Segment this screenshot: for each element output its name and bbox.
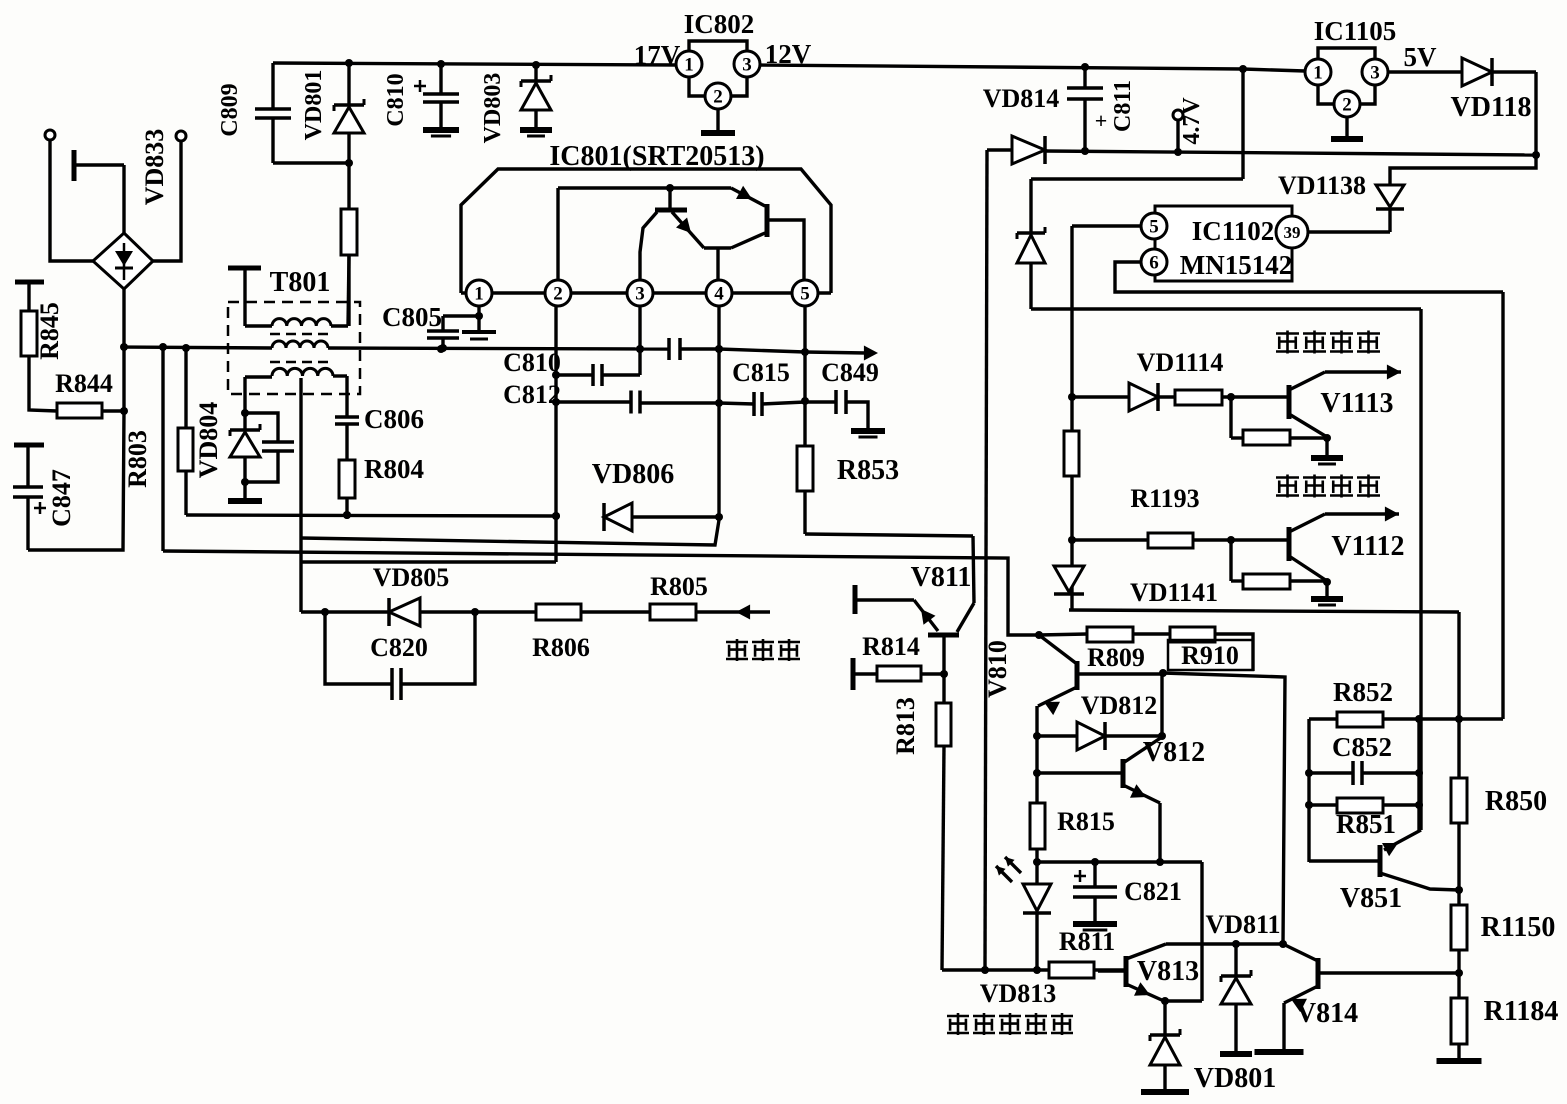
svg-text:IC1102: IC1102 xyxy=(1192,216,1275,246)
svg-text:VD805: VD805 xyxy=(373,563,450,592)
svg-text:VD812: VD812 xyxy=(1081,691,1158,720)
svg-text:V810: V810 xyxy=(983,640,1012,698)
svg-text:R811: R811 xyxy=(1059,927,1115,956)
svg-text:4.7V: 4.7V xyxy=(1179,97,1205,145)
svg-text:2: 2 xyxy=(713,86,723,107)
svg-text:C821: C821 xyxy=(1124,877,1182,906)
svg-text:C810: C810 xyxy=(383,73,409,126)
svg-text:R1184: R1184 xyxy=(1484,996,1559,1027)
svg-text:R853: R853 xyxy=(837,455,899,486)
svg-text:6: 6 xyxy=(1149,252,1159,273)
svg-text:V1112: V1112 xyxy=(1331,531,1404,562)
svg-text:C809: C809 xyxy=(217,83,243,136)
svg-text:C806: C806 xyxy=(364,404,424,434)
svg-text:VD814: VD814 xyxy=(983,84,1060,113)
svg-text:R815: R815 xyxy=(1057,807,1115,836)
svg-text:R852: R852 xyxy=(1333,677,1393,707)
svg-text:3: 3 xyxy=(742,54,752,75)
svg-text:C811: C811 xyxy=(1110,80,1136,132)
svg-text:R844: R844 xyxy=(55,369,113,398)
svg-text:IC802: IC802 xyxy=(684,9,755,39)
svg-text:17V: 17V xyxy=(634,40,681,70)
svg-text:V1113: V1113 xyxy=(1320,388,1393,419)
svg-text:2: 2 xyxy=(1342,94,1352,115)
svg-text:5: 5 xyxy=(800,283,810,304)
svg-text:2: 2 xyxy=(553,283,563,304)
svg-text:VD803: VD803 xyxy=(480,73,506,144)
svg-text:C812: C812 xyxy=(503,380,561,409)
svg-text:R850: R850 xyxy=(1485,786,1547,817)
svg-text:V851: V851 xyxy=(1340,883,1402,914)
svg-text:C849: C849 xyxy=(821,358,879,387)
svg-text:1: 1 xyxy=(684,54,694,75)
svg-text:VD1114: VD1114 xyxy=(1137,348,1224,377)
svg-text:C852: C852 xyxy=(1332,732,1392,762)
svg-text:VD811: VD811 xyxy=(1205,910,1280,939)
svg-text:C815: C815 xyxy=(732,358,790,387)
svg-text:R1193: R1193 xyxy=(1130,484,1199,513)
svg-text:R851: R851 xyxy=(1336,809,1396,839)
svg-text:VD1141: VD1141 xyxy=(1130,578,1218,607)
svg-text:R806: R806 xyxy=(532,633,590,662)
svg-text:V813: V813 xyxy=(1137,956,1199,987)
svg-text:5: 5 xyxy=(1149,216,1159,237)
svg-text:VD806: VD806 xyxy=(592,459,674,490)
svg-text:R805: R805 xyxy=(650,572,708,601)
svg-text:IC801(SRT20513): IC801(SRT20513) xyxy=(549,141,764,172)
svg-text:R804: R804 xyxy=(364,454,424,484)
svg-text:VD801: VD801 xyxy=(301,70,327,141)
svg-text:T801: T801 xyxy=(270,267,331,298)
svg-text:V812: V812 xyxy=(1143,737,1205,768)
svg-text:5V: 5V xyxy=(1404,42,1438,72)
svg-text:VD1138: VD1138 xyxy=(1278,171,1366,200)
svg-text:C810: C810 xyxy=(503,348,561,377)
svg-text:R845: R845 xyxy=(35,302,64,360)
svg-text:1: 1 xyxy=(474,283,484,304)
svg-text:R809: R809 xyxy=(1087,643,1145,672)
svg-text:VD833: VD833 xyxy=(140,129,169,206)
svg-text:R1150: R1150 xyxy=(1481,912,1556,943)
svg-text:+: + xyxy=(1095,108,1108,133)
svg-text:4: 4 xyxy=(714,283,724,304)
svg-text:C820: C820 xyxy=(370,633,428,662)
svg-text:MN15142: MN15142 xyxy=(1180,250,1292,280)
svg-text:VD813: VD813 xyxy=(980,979,1057,1008)
svg-text:VD118: VD118 xyxy=(1451,92,1532,123)
svg-text:VD801: VD801 xyxy=(1194,1063,1276,1094)
svg-text:R803: R803 xyxy=(123,430,152,488)
svg-text:1: 1 xyxy=(1313,62,1323,83)
svg-text:R910: R910 xyxy=(1181,641,1239,670)
svg-text:39: 39 xyxy=(1284,223,1301,242)
svg-text:3: 3 xyxy=(635,283,645,304)
svg-text:VD804: VD804 xyxy=(194,402,223,479)
svg-text:IC1105: IC1105 xyxy=(1314,16,1397,46)
svg-text:V811: V811 xyxy=(911,562,972,593)
svg-text:R814: R814 xyxy=(862,632,920,661)
svg-text:V814: V814 xyxy=(1296,998,1358,1029)
svg-text:C847: C847 xyxy=(47,469,76,527)
svg-text:C805: C805 xyxy=(382,302,442,332)
svg-text:R813: R813 xyxy=(891,697,920,755)
svg-text:3: 3 xyxy=(1370,62,1380,83)
